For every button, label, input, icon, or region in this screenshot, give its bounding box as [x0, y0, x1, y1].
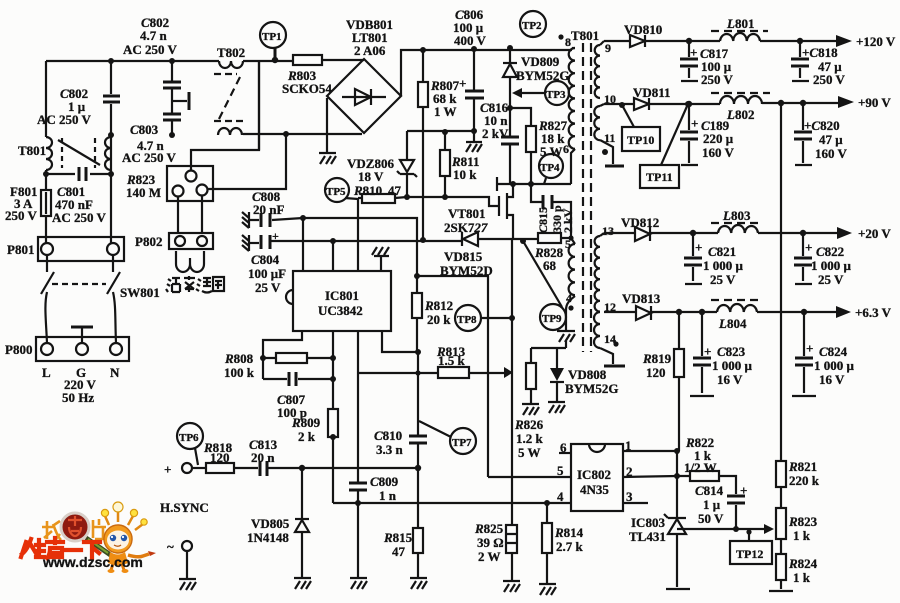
resistor R824	[776, 554, 786, 580]
svg-text:1N4148: 1N4148	[247, 530, 289, 545]
svg-text:25 V: 25 V	[255, 280, 281, 295]
wire VCC line	[271, 239, 538, 241]
capacitor C189	[688, 104, 690, 163]
svg-text:50 V: 50 V	[698, 511, 724, 526]
wire pin2 to R822	[623, 476, 690, 477]
IC802 4N35 optocoupler	[571, 444, 623, 511]
svg-text:1 n: 1 n	[379, 488, 397, 503]
bridge rectifier VDB801 diamond	[327, 59, 401, 133]
svg-text:1 W: 1 W	[434, 104, 457, 119]
svg-text:VD815: VD815	[444, 249, 483, 264]
wire +120V rail	[645, 40, 838, 42]
svg-text:VD812: VD812	[621, 215, 659, 230]
svg-text:1 μ: 1 μ	[703, 497, 721, 512]
test point TP4	[539, 154, 563, 178]
svg-text:+: +	[695, 240, 702, 255]
svg-text:1.2 k: 1.2 k	[516, 431, 544, 446]
svg-text:C824: C824	[819, 344, 848, 359]
test point TP6	[177, 423, 203, 449]
wire gate	[407, 197, 498, 206]
node +120V arrow	[836, 35, 852, 47]
test point TP5	[325, 178, 349, 202]
svg-text:100 μF: 100 μF	[248, 266, 286, 281]
IC U801 UC3842	[293, 271, 391, 331]
capacitor C814	[719, 476, 736, 529]
capacitor C804	[249, 242, 259, 244]
resistor R825 sense	[511, 477, 513, 581]
svg-text:+: +	[691, 116, 698, 131]
capacitor C815	[531, 184, 571, 237]
connector P802	[169, 233, 213, 249]
svg-text:120: 120	[646, 365, 666, 380]
capacitor C820	[802, 103, 804, 163]
svg-text:TP5: TP5	[326, 186, 346, 198]
wire to P800	[45, 292, 116, 343]
resistor R828	[538, 233, 561, 243]
svg-text:TP3: TP3	[546, 89, 566, 101]
switch SW801	[41, 255, 120, 294]
capacitor C801	[46, 135, 111, 243]
resistor R823 140M degauss box	[167, 166, 213, 201]
svg-text:C821: C821	[708, 244, 736, 259]
wire +20V rail	[650, 232, 839, 234]
svg-text:TP12: TP12	[736, 547, 763, 561]
svg-text:1.5 k: 1.5 k	[438, 353, 466, 368]
svg-text:8: 8	[565, 35, 571, 49]
svg-text:2SK727: 2SK727	[444, 220, 488, 235]
svg-text:TP6: TP6	[179, 432, 199, 444]
svg-text:AC 250 V: AC 250 V	[122, 150, 177, 165]
svg-text:160 V: 160 V	[815, 146, 848, 161]
svg-text:250 V: 250 V	[813, 72, 846, 87]
diode inside bridge	[342, 96, 386, 98]
svg-text:SW801: SW801	[120, 285, 160, 300]
wire AC-B to bridge	[243, 133, 362, 135]
svg-text:VD809: VD809	[521, 54, 560, 69]
svg-text:R821: R821	[788, 459, 817, 474]
resistor R819	[678, 312, 680, 451]
wire pin4 gnd bus	[333, 502, 571, 504]
wire R823 to P802	[178, 195, 202, 233]
wire source down	[511, 240, 513, 477]
svg-text:R825: R825	[474, 521, 504, 536]
test point TP10 box	[622, 127, 660, 151]
svg-text:TP11: TP11	[646, 170, 673, 184]
degaussing coil plug	[176, 251, 204, 272]
diode VD808	[550, 368, 564, 381]
svg-text:R823: R823	[788, 514, 818, 529]
node +20V arrow	[837, 227, 852, 239]
svg-text:120: 120	[210, 450, 230, 465]
svg-text:4.7 n: 4.7 n	[140, 28, 168, 43]
wire +90V to R821 sense	[780, 103, 782, 461]
test point TP11 box	[685, 101, 691, 107]
svg-text:1 k: 1 k	[793, 528, 811, 543]
svg-text:L804: L804	[718, 316, 747, 331]
svg-text:68: 68	[543, 258, 557, 273]
diode VD805	[301, 468, 303, 578]
svg-text:AC 250 V: AC 250 V	[123, 42, 178, 57]
resistor R813	[359, 372, 438, 374]
svg-text:R826: R826	[514, 417, 544, 432]
inductor L804	[711, 299, 761, 301]
node +6.3V arrow	[836, 306, 851, 318]
svg-text:4N35: 4N35	[580, 482, 609, 497]
resistor R815	[417, 468, 419, 578]
svg-text:+: +	[690, 45, 697, 60]
svg-text:IC803: IC803	[631, 515, 665, 530]
resistor R822	[690, 471, 719, 481]
capacitor C807	[263, 378, 333, 380]
wire R823 top to AC line	[191, 61, 259, 170]
svg-text:160 V: 160 V	[702, 145, 735, 160]
wire R812 node down	[417, 352, 419, 468]
svg-text:+: +	[740, 483, 747, 498]
svg-text:R809: R809	[291, 415, 321, 430]
svg-text:P800: P800	[5, 342, 32, 357]
node TP10 tap	[619, 102, 625, 108]
svg-text:1 000 μ: 1 000 μ	[814, 358, 855, 373]
svg-text:L: L	[42, 365, 51, 380]
winding primary 8-6	[572, 47, 575, 49]
svg-text:2 k: 2 k	[298, 429, 316, 444]
svg-text:N: N	[110, 365, 120, 380]
capacitor C817	[688, 41, 690, 78]
wire left vertical	[45, 61, 47, 243]
svg-text:T802: T802	[217, 45, 245, 60]
svg-text:P802: P802	[135, 234, 162, 249]
svg-text:25 V: 25 V	[818, 272, 844, 287]
svg-text:VD811: VD811	[633, 85, 671, 100]
resistor R818	[206, 463, 234, 473]
svg-text:220 μ: 220 μ	[703, 131, 734, 146]
wire drain rail	[497, 177, 571, 191]
wire pin4 to gnd	[566, 296, 575, 331]
svg-text:TP9: TP9	[542, 313, 562, 325]
svg-text:H.SYNC: H.SYNC	[160, 500, 209, 515]
svg-text:UC3842: UC3842	[318, 303, 363, 318]
svg-text:R812: R812	[424, 298, 453, 313]
test point TP8	[455, 305, 481, 331]
svg-text:220 k: 220 k	[789, 473, 820, 488]
capacitor C823	[701, 312, 703, 393]
svg-text:+90 V: +90 V	[858, 95, 891, 110]
test point TP2	[520, 11, 546, 37]
svg-text:39 Ω: 39 Ω	[477, 535, 504, 550]
node +90V arrow	[838, 96, 854, 108]
svg-text:SCKO54: SCKO54	[282, 81, 332, 96]
capacitor C803 pair	[171, 61, 173, 135]
zener VDZ806	[406, 131, 408, 197]
svg-text:400 V: 400 V	[454, 33, 487, 48]
svg-text:18 V: 18 V	[358, 169, 384, 184]
svg-text:+: +	[459, 76, 466, 91]
capacitor C809	[349, 483, 367, 490]
connector P800	[36, 337, 129, 361]
svg-text:25 V: 25 V	[710, 272, 736, 287]
svg-text:9: 9	[605, 41, 611, 55]
svg-text:+: +	[164, 462, 171, 477]
wire gnd bus y131	[407, 130, 474, 132]
svg-text:R819: R819	[642, 351, 672, 366]
transistor VT801 MOSFET	[498, 196, 500, 216]
svg-text:2 W: 2 W	[478, 549, 501, 564]
svg-text:R810: R810	[353, 183, 382, 198]
svg-text:C814: C814	[695, 483, 724, 498]
node top-left junctions	[108, 58, 114, 64]
wire bridge + to rail	[401, 50, 572, 96]
fuse F801	[41, 190, 51, 216]
svg-text:1 000 μ: 1 000 μ	[811, 258, 852, 273]
test point TP7 pointer	[419, 421, 451, 437]
resistor R823 pot	[780, 487, 782, 554]
svg-text:L801: L801	[726, 16, 754, 31]
svg-text:2 A06: 2 A06	[354, 43, 386, 58]
wire tap down to R823	[258, 61, 260, 150]
connector P801	[38, 237, 124, 261]
svg-text:10 k: 10 k	[453, 167, 477, 182]
capacitor C802 (1u)	[103, 96, 120, 102]
svg-text:+120 V: +120 V	[856, 34, 896, 49]
watermark magnifier logo	[61, 513, 89, 541]
svg-text:VD808: VD808	[568, 367, 607, 382]
ground pin IC801 top	[372, 247, 389, 271]
svg-text:+: +	[806, 341, 813, 356]
resistor R803	[293, 55, 322, 65]
wire ref line	[677, 528, 764, 530]
svg-text:50 Hz: 50 Hz	[62, 390, 94, 405]
wire top AC line	[46, 60, 364, 61]
resistor R826 network corner	[531, 341, 566, 368]
capacitor C824	[803, 312, 805, 393]
svg-text:AC 250 V: AC 250 V	[52, 210, 107, 225]
wire pin feedback loop	[263, 331, 302, 379]
svg-text:R815: R815	[383, 530, 413, 545]
ground below C806	[466, 131, 482, 152]
svg-text:+6.3 V: +6.3 V	[855, 305, 892, 320]
test point TP1	[260, 22, 286, 48]
svg-text:+: +	[805, 240, 812, 255]
svg-text:2 kV: 2 kV	[561, 208, 575, 233]
svg-text:1/2 W: 1/2 W	[684, 460, 717, 475]
svg-text:T801: T801	[18, 143, 46, 158]
svg-text:TP4: TP4	[540, 162, 560, 174]
svg-text:47: 47	[392, 544, 406, 559]
capacitor C822	[802, 233, 804, 281]
svg-text:+: +	[704, 344, 711, 359]
diode VD815	[461, 232, 463, 246]
svg-text:TP7: TP7	[452, 437, 472, 449]
svg-text:IC801: IC801	[325, 288, 359, 303]
wire C808 net to R812	[303, 218, 417, 276]
svg-text:www.dzsc.com: www.dzsc.com	[42, 554, 143, 570]
svg-text:~: ~	[167, 539, 174, 554]
svg-text:1 k: 1 k	[793, 570, 811, 585]
svg-text:C809: C809	[370, 474, 399, 489]
svg-text:5: 5	[557, 463, 564, 478]
svg-text:1 000 μ: 1 000 μ	[703, 258, 744, 273]
resistor R807 startup	[422, 50, 424, 240]
svg-text:VT801: VT801	[448, 206, 486, 221]
ground earth bar above G	[81, 328, 83, 343]
capacitor C813	[234, 467, 418, 469]
resistor R814	[546, 503, 548, 584]
svg-text:P801: P801	[7, 242, 34, 257]
svg-text:+: +	[272, 229, 279, 243]
svg-text:100 k: 100 k	[224, 365, 255, 380]
svg-text:TP2: TP2	[522, 20, 542, 32]
svg-text:AC 250 V: AC 250 V	[37, 112, 92, 127]
svg-text:VD805: VD805	[251, 516, 290, 531]
label degaussing coil (CJK approx)	[166, 276, 224, 293]
svg-text:1 000 μ: 1 000 μ	[712, 358, 753, 373]
node rail junctions	[420, 47, 426, 53]
wire IC801 top pins	[303, 199, 358, 271]
wire +6.3V rail	[651, 311, 838, 313]
svg-text:+C820: +C820	[804, 118, 840, 133]
ground pin 11	[600, 140, 613, 164]
resistor R827 snubber	[510, 108, 531, 184]
svg-text:250 V: 250 V	[5, 208, 38, 223]
svg-text:TP8: TP8	[457, 314, 477, 326]
svg-text:TP1: TP1	[262, 31, 282, 43]
svg-text:R814: R814	[554, 525, 584, 540]
resistor R808	[260, 355, 266, 361]
capacitor C821	[692, 233, 694, 281]
wire R823 right to AC-B	[207, 134, 286, 189]
core T801	[583, 43, 591, 352]
watermark logo zhao char	[42, 521, 61, 540]
svg-text:TP10: TP10	[627, 133, 654, 147]
wire comp net right	[417, 276, 488, 477]
svg-text:+C818: +C818	[802, 45, 838, 60]
svg-text:C822: C822	[816, 244, 844, 259]
capacitor C810	[409, 436, 427, 443]
wire output pin to R812 node	[382, 331, 418, 352]
capacitor C816 snubber	[501, 137, 519, 144]
ground side-hatch C808	[242, 212, 249, 228]
svg-text:4: 4	[557, 489, 564, 504]
node AC-B junctions	[43, 171, 49, 177]
svg-text:5 W: 5 W	[518, 445, 541, 460]
svg-text:C815: C815	[536, 207, 550, 233]
svg-text:6: 6	[563, 142, 569, 156]
wire pin1 to R819	[623, 451, 677, 517]
watermark pian char	[93, 519, 106, 539]
svg-text:VD813: VD813	[622, 291, 661, 306]
ground from bridge left vertex	[326, 98, 328, 153]
wire pin14 to bar	[600, 348, 613, 364]
wire pin5	[488, 476, 571, 478]
svg-text:16 V: 16 V	[819, 372, 845, 387]
svg-text:C810: C810	[374, 428, 402, 443]
wire pin6 to drain rail	[571, 149, 575, 184]
svg-text:R808: R808	[224, 351, 254, 366]
resistor R821	[776, 461, 786, 487]
svg-text:IC802: IC802	[577, 467, 611, 482]
test point TP9 pointer	[520, 238, 526, 244]
svg-text:16 V: 16 V	[717, 372, 743, 387]
svg-text:20 n: 20 n	[251, 450, 275, 465]
svg-text:L803: L803	[722, 208, 751, 223]
svg-text:3: 3	[626, 489, 633, 504]
svg-text:250 V: 250 V	[701, 72, 734, 87]
svg-text:BYM52G: BYM52G	[565, 381, 618, 396]
svg-text:140 M: 140 M	[126, 185, 161, 200]
svg-text:13: 13	[602, 224, 614, 238]
test point TP3 pointer	[522, 92, 545, 94]
svg-text:+20 V: +20 V	[858, 226, 891, 241]
resistor R809	[332, 331, 334, 503]
wire +90V rail	[649, 103, 840, 104]
svg-text:20 k: 20 k	[427, 312, 451, 327]
resistor R812	[412, 293, 422, 318]
wire RT/CT pin down	[357, 331, 359, 578]
watermark weiku chars red	[21, 538, 100, 558]
node C803 mid tap electrode	[173, 100, 187, 102]
svg-text:3.3 n: 3.3 n	[376, 442, 404, 457]
test point TP12 box	[746, 529, 751, 534]
svg-text:T801: T801	[571, 28, 599, 43]
inductor L802	[711, 92, 770, 94]
svg-text:R824: R824	[788, 556, 818, 571]
svg-text:C823: C823	[717, 344, 746, 359]
svg-text:TL431: TL431	[629, 529, 666, 544]
svg-text:L802: L802	[726, 107, 754, 122]
svg-text:47 μ: 47 μ	[819, 132, 843, 147]
svg-text:2 kV: 2 kV	[482, 126, 509, 141]
capacitor C818	[799, 41, 801, 78]
svg-text:C804: C804	[251, 252, 280, 267]
svg-text:2.7 k: 2.7 k	[556, 539, 584, 554]
resistor R811	[442, 129, 448, 135]
ground side-hatch C804	[242, 235, 249, 251]
svg-text:C803: C803	[130, 122, 159, 137]
watermark mascot	[101, 502, 156, 573]
